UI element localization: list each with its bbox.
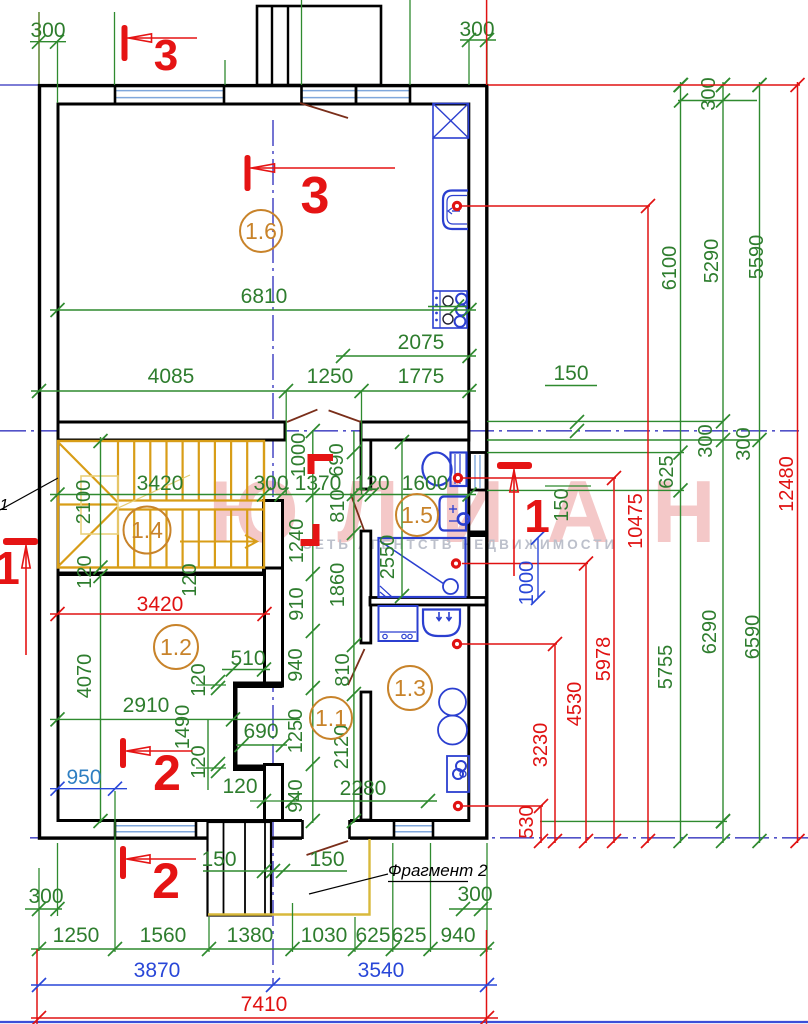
- svg-text:1600: 1600: [402, 472, 449, 495]
- svg-text:1860: 1860: [327, 563, 349, 608]
- red vertical bottom left: [36, 949, 38, 1024]
- blue bottom border line: [0, 1021, 808, 1023]
- fragment 2 leader: [309, 874, 388, 894]
- section marker 3 top: [122, 25, 128, 61]
- room circle 1.1: [310, 697, 352, 739]
- top wall window W1 gap: [115, 88, 224, 103]
- porch step line 1: [223, 822, 225, 916]
- dim 2075: [336, 355, 476, 357]
- outer wall rectangle: [40, 86, 487, 839]
- dim 690 niche: [236, 744, 287, 746]
- svg-text:5755: 5755: [655, 645, 677, 690]
- svg-text:1: 1: [0, 542, 20, 594]
- axis horizontal bottom y838: [30, 837, 808, 839]
- shower tray: [379, 538, 466, 597]
- dim 7410: [31, 1017, 498, 1019]
- bottom door jamb right: [348, 820, 351, 839]
- dim 300 top-right: [460, 39, 496, 41]
- dim 2280: [284, 800, 437, 802]
- right wall stub at basin: [470, 531, 487, 538]
- niche lower vertical wall: [265, 765, 283, 821]
- top wall window W2 gap: [302, 88, 411, 103]
- green vertical 680: [680, 82, 682, 843]
- svg-text:1490: 1490: [172, 705, 194, 750]
- door leaf 1.3: [348, 649, 365, 685]
- bottom dim row: [31, 948, 492, 950]
- shower red point: [451, 558, 461, 568]
- basin 1.3: [423, 610, 460, 637]
- section marker 2 upper: [120, 738, 126, 768]
- svg-text:Фрагмент 2: Фрагмент 2: [388, 861, 488, 880]
- svg-text:530: 530: [516, 805, 538, 838]
- svg-text:2100: 2100: [73, 480, 95, 525]
- fragment 1 leader: [0, 478, 58, 510]
- dim 4070 vertical: [100, 574, 102, 823]
- svg-text:5590: 5590: [746, 235, 768, 280]
- inner wall rectangle: [58, 104, 469, 821]
- svg-text:1250: 1250: [307, 365, 354, 388]
- dim 510: [222, 669, 270, 671]
- interior wall left segment outline: [58, 422, 285, 440]
- svg-text:625: 625: [391, 924, 426, 947]
- niche upper vertical wall: [265, 568, 283, 686]
- dim ticks niche bottom: [211, 757, 225, 771]
- svg-text:150: 150: [551, 488, 573, 521]
- stove control strip: [439, 291, 441, 328]
- ext lines bottom row: [114, 791, 116, 952]
- red vertical 5978: [613, 478, 615, 843]
- chimney inner line 1: [271, 6, 273, 85]
- boiler circles: [439, 689, 466, 716]
- svg-text:2075: 2075: [398, 331, 445, 354]
- dim 300 top-left: [30, 41, 66, 43]
- shower corner hatch: [380, 592, 386, 597]
- svg-text:1380: 1380: [227, 924, 274, 947]
- kitchen sink faucet: [452, 210, 460, 212]
- svg-text:1000: 1000: [288, 433, 310, 478]
- svg-text:300: 300: [695, 424, 717, 457]
- green vertical 723: [722, 82, 724, 843]
- wall between 1.5 and 1.3: [370, 598, 486, 606]
- svg-text:625: 625: [656, 455, 678, 488]
- svg-text:6810: 6810: [241, 285, 288, 308]
- svg-text:1250: 1250: [285, 709, 307, 754]
- svg-text:2280: 2280: [340, 777, 387, 800]
- pilaster blue hatch: [474, 455, 476, 488]
- section marker 3 in-room: [245, 155, 251, 191]
- svg-text:12480: 12480: [776, 456, 798, 512]
- red vertical 3230: [554, 644, 556, 843]
- stove outline: [433, 291, 467, 328]
- svg-text:3230: 3230: [530, 723, 552, 768]
- door swing hall double: [287, 410, 317, 422]
- svg-text:300: 300: [28, 885, 63, 908]
- red leader toilet: [462, 477, 616, 479]
- svg-text:3870: 3870: [134, 959, 181, 982]
- dim 150-150 porch: [203, 870, 347, 872]
- red leader kitchen sink: [462, 205, 650, 207]
- svg-text:120: 120: [179, 563, 201, 596]
- svg-text:1.3: 1.3: [394, 675, 426, 701]
- toilet bowl: [419, 450, 454, 488]
- red vertical 10475: [647, 206, 649, 843]
- svg-text:4530: 4530: [564, 682, 586, 727]
- section marker 1 left: [3, 538, 38, 545]
- dim 2910: [50, 718, 300, 720]
- dim 300 bottom-left: [25, 908, 62, 910]
- svg-text:3: 3: [301, 167, 330, 225]
- stairs light guide box: [81, 476, 118, 534]
- shower drain circle: [443, 579, 458, 594]
- basin 1.5 taps: [449, 508, 457, 510]
- svg-text:120: 120: [222, 775, 257, 798]
- green stub right y490: [487, 489, 684, 491]
- vert stub 2550: [401, 442, 403, 596]
- dim row 4085-1250-1775: [31, 390, 476, 392]
- svg-text:1: 1: [524, 490, 550, 542]
- fragment 2 red bracket bottom: [301, 524, 317, 543]
- red point 1.3 sink: [452, 639, 462, 649]
- ext line window W2 left: [301, 0, 303, 85]
- green stub right y821: [540, 820, 727, 822]
- svg-text:940: 940: [285, 779, 307, 812]
- chimney inner line 2: [287, 6, 289, 85]
- red leader 530: [462, 805, 543, 807]
- stairs outline: [58, 441, 264, 568]
- bottom wall door gap: [302, 819, 350, 842]
- svg-text:940: 940: [440, 924, 475, 947]
- wall 1.5 upper segment: [361, 440, 371, 489]
- svg-text:300: 300: [30, 19, 65, 42]
- fragment 2 red bracket top: [311, 458, 333, 475]
- niche left wall: [233, 682, 238, 771]
- svg-text:940: 940: [285, 648, 307, 681]
- niche top wall: [233, 682, 283, 689]
- porch yellow boundary: [208, 839, 370, 915]
- red point 1.1: [453, 801, 463, 811]
- ext lines top-left: [38, 12, 40, 84]
- dim 2100 vertical: [100, 437, 102, 570]
- svg-text:1.4: 1.4: [131, 517, 163, 543]
- window Wb2 caps: [393, 821, 396, 839]
- red vertical bottom right: [486, 930, 488, 1024]
- stairs winder diagonal lower: [58, 507, 118, 567]
- corridor left wall outlined: [264, 501, 283, 572]
- ext line window W2 right: [409, 0, 411, 85]
- stairs bottom wall band: [58, 572, 284, 577]
- svg-text:1775: 1775: [398, 365, 445, 388]
- toilet red point: [453, 473, 463, 483]
- dim 1000 blue vertical: [537, 538, 539, 598]
- dim 3420 red: [50, 613, 270, 615]
- svg-text:300: 300: [459, 18, 494, 41]
- basin 1.3 arrows: [437, 612, 442, 621]
- green vertical 759: [759, 82, 761, 843]
- stairs direction arrow: [180, 541, 255, 543]
- window Wb2 blue lines: [394, 825, 433, 827]
- room circle 1.3: [388, 666, 432, 710]
- kitchen counter line: [432, 138, 434, 291]
- interior wall right segment outline: [361, 422, 469, 440]
- kitchen sink red point: [452, 201, 462, 211]
- red vertical 4530: [585, 564, 587, 844]
- red top extension line: [488, 84, 800, 86]
- basin 1.5 drain ring: [458, 513, 469, 524]
- svg-text:950: 950: [66, 766, 101, 789]
- pilaster right wall at toilet: [470, 453, 487, 491]
- door leaf 1.5: [351, 494, 365, 531]
- svg-text:910: 910: [286, 587, 308, 620]
- bottom wall window Wb2 gap: [394, 823, 433, 837]
- stairs treads: [117, 441, 119, 501]
- green stub right y421: [487, 420, 723, 422]
- washing machine: [379, 606, 418, 641]
- dim ticks entrance: [257, 794, 271, 808]
- bottom door jamb left: [301, 820, 304, 839]
- ext line window W1 right: [224, 60, 226, 85]
- stairs mid landing lines: [118, 499, 264, 501]
- ext lines top-right: [468, 40, 470, 85]
- section marker 1 right: [497, 462, 532, 469]
- green ticks on red top line: [674, 78, 688, 92]
- shower diagonal: [380, 541, 450, 588]
- dim 6810: [50, 309, 476, 311]
- stairs winder diagonal upper: [58, 442, 118, 502]
- svg-text:625: 625: [355, 924, 390, 947]
- green stub top right y100: [678, 100, 757, 102]
- window W1 blue lines: [115, 90, 224, 92]
- svg-text:2: 2: [153, 745, 181, 801]
- svg-text:1.5: 1.5: [401, 502, 433, 528]
- svg-text:СЕТЬ АГЕНТСТВ НЕДВИЖИМОСТИ: СЕТЬ АГЕНТСТВ НЕДВИЖИМОСТИ: [302, 537, 617, 552]
- vent shaft X-box: [433, 104, 469, 139]
- red vertical x486 top: [486, 0, 488, 85]
- svg-text:6290: 6290: [699, 610, 721, 655]
- window W2 blue lines: [302, 90, 411, 92]
- dim 300 porch right: [449, 908, 492, 910]
- svg-text:5290: 5290: [701, 239, 723, 284]
- room circle 1.6: [240, 210, 282, 252]
- ext line window W1 left: [114, 12, 116, 85]
- room circle 1.5: [396, 494, 438, 536]
- room circle 1.4: [124, 507, 171, 554]
- red leader sink 1.3: [462, 643, 557, 645]
- red vertical 12480: [797, 82, 799, 843]
- svg-text:6100: 6100: [659, 246, 681, 291]
- svg-text:4070: 4070: [74, 654, 96, 699]
- svg-text:120: 120: [74, 555, 96, 588]
- kitchen window swing line: [300, 103, 348, 118]
- porch step line 2: [244, 822, 246, 916]
- window W2 caps: [300, 86, 303, 104]
- svg-text:510: 510: [230, 647, 265, 670]
- svg-text:7410: 7410: [241, 993, 288, 1016]
- entrance door leaf: [307, 841, 349, 855]
- room circle 1.2: [154, 625, 198, 669]
- dim ticks 150 mid: [570, 415, 584, 429]
- svg-text:1030: 1030: [301, 924, 348, 947]
- dim 950 blue: [50, 788, 127, 790]
- svg-text:300: 300: [733, 427, 755, 460]
- kitchen sink: [443, 191, 468, 230]
- svg-text:3420: 3420: [137, 593, 184, 616]
- svg-text:1.1: 1.1: [315, 705, 347, 731]
- wall 1.3 lower segment: [361, 692, 371, 820]
- svg-text:810: 810: [332, 653, 354, 686]
- svg-text:150: 150: [309, 848, 344, 871]
- svg-text:3420: 3420: [137, 472, 184, 495]
- svg-text:1250: 1250: [53, 924, 100, 947]
- toilet tank: [451, 453, 467, 487]
- svg-text:1000: 1000: [516, 561, 538, 606]
- axis horizontal top-left stub: [0, 84, 39, 86]
- green stub right y452: [487, 452, 684, 454]
- ext line door jamb left: [285, 391, 287, 494]
- basin 1.5: [440, 497, 467, 531]
- chimney block: [257, 6, 381, 85]
- window Wb1 blue lines: [115, 825, 196, 827]
- svg-text:2120: 2120: [331, 725, 353, 770]
- ext bottom-left greens: [38, 868, 40, 951]
- svg-text:120: 120: [188, 663, 210, 696]
- svg-text:2910: 2910: [123, 694, 170, 717]
- window Wb1 caps: [114, 821, 117, 839]
- dim row 3870-3540 blue: [31, 984, 497, 986]
- svg-text:4085: 4085: [148, 365, 195, 388]
- svg-text:300: 300: [253, 472, 288, 495]
- svg-text:2550: 2550: [377, 535, 399, 580]
- svg-text:2: 2: [152, 853, 180, 909]
- green stub right y440: [487, 439, 760, 441]
- svg-text:1560: 1560: [140, 924, 187, 947]
- vert dim chain x354: [353, 431, 355, 823]
- section marker 2 lower: [120, 846, 126, 879]
- niche bottom wall: [233, 765, 283, 772]
- svg-text:10475: 10475: [625, 493, 647, 549]
- vert dim chain x313: [312, 431, 314, 823]
- dim 1490 vertical: [207, 719, 209, 790]
- svg-text:150: 150: [201, 848, 236, 871]
- svg-text:6590: 6590: [742, 615, 764, 660]
- svg-text:690: 690: [243, 720, 278, 743]
- porch steps box: [208, 822, 272, 916]
- pump unit: [447, 756, 469, 792]
- stairs winder mid line: [58, 503, 118, 505]
- stove green stub: [428, 306, 467, 308]
- stairs up diagonal light: [118, 475, 190, 508]
- bottom wall window Wb1 gap: [115, 823, 196, 837]
- wall 1.5 mid segment: [361, 531, 371, 643]
- svg-text:1.6: 1.6: [245, 218, 277, 244]
- svg-text:5978: 5978: [593, 637, 615, 682]
- window W1 caps: [114, 86, 117, 104]
- stove burners black: [443, 296, 453, 306]
- svg-text:150: 150: [553, 362, 588, 385]
- red leader shower: [462, 563, 588, 565]
- dim row 3420-300-1370-120-1600: [50, 494, 476, 496]
- porch step line 3: [264, 822, 266, 916]
- ext line door jamb right: [361, 391, 363, 494]
- stove burners blue: [456, 294, 467, 305]
- svg-text:3540: 3540: [358, 959, 405, 982]
- svg-text:3: 3: [154, 31, 178, 80]
- svg-text:1.2: 1.2: [160, 634, 192, 660]
- dim ticks niche top: [211, 675, 225, 689]
- axis vertical x273: [272, 120, 274, 985]
- svg-text:810: 810: [327, 489, 349, 522]
- red vertical 530: [540, 806, 542, 843]
- axis horizontal mid y430: [0, 430, 799, 432]
- svg-text:120: 120: [354, 472, 389, 495]
- svg-text:1: 1: [0, 497, 8, 514]
